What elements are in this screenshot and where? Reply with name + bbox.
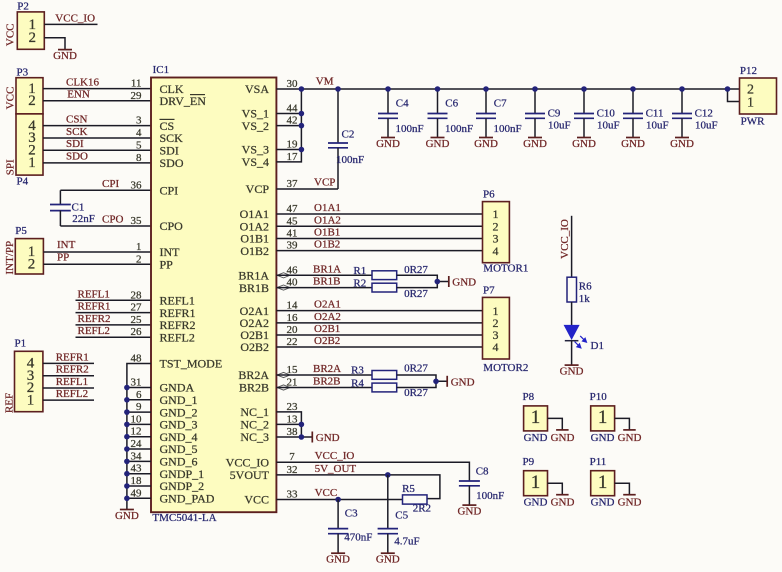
svg-text:P9: P9 <box>523 456 535 468</box>
svg-text:41: 41 <box>287 228 298 240</box>
svg-text:P11: P11 <box>590 456 607 468</box>
svg-text:VCC_IO: VCC_IO <box>55 13 95 25</box>
wire GNDP_1 to rail <box>127 473 151 475</box>
wire GND_4 to rail <box>127 436 151 438</box>
svg-text:1k: 1k <box>579 293 591 305</box>
svg-text:14: 14 <box>287 300 299 312</box>
svg-text:36: 36 <box>131 179 143 191</box>
svg-text:REF: REF <box>4 393 16 413</box>
connector P3 <box>4 66 43 113</box>
resistor R5 <box>402 483 431 515</box>
pin decoration diamond <box>277 273 290 278</box>
svg-text:1: 1 <box>598 407 608 428</box>
svg-text:VCC: VCC <box>5 23 17 46</box>
IC1 pin 6 GND_1 <box>136 389 198 407</box>
wire GND_2 to rail <box>127 411 151 413</box>
wire CPO <box>60 225 151 227</box>
svg-text:BR2B: BR2B <box>239 381 269 395</box>
junction P12 <box>725 86 731 92</box>
svg-text:7: 7 <box>289 451 295 463</box>
svg-text:27: 27 <box>131 302 143 314</box>
svg-text:C4: C4 <box>396 98 409 110</box>
svg-text:BR1B: BR1B <box>239 281 269 295</box>
svg-text:O2B1: O2B1 <box>314 323 340 335</box>
resistor R1 <box>353 264 428 280</box>
resistor R6 <box>567 277 592 305</box>
svg-text:D1: D1 <box>591 340 604 352</box>
svg-text:BR1A: BR1A <box>313 263 341 275</box>
svg-text:13: 13 <box>287 413 299 425</box>
IC1 pin 25 REFR2 <box>131 314 196 332</box>
svg-text:49: 49 <box>131 487 143 499</box>
svg-text:VM: VM <box>316 76 334 88</box>
connector P11 <box>590 456 615 509</box>
capacitor C11 10uF <box>623 89 669 137</box>
connector P4 <box>4 114 43 187</box>
svg-text:GND: GND <box>591 432 615 444</box>
svg-text:INT: INT <box>57 239 76 251</box>
IC1 pin 27 REFR1 <box>131 302 196 320</box>
wire REFL2 <box>76 336 152 338</box>
IC1 pin 24 GND_5 <box>131 438 198 456</box>
IC1 pin 21 BR2B <box>239 377 298 395</box>
IC1 pin 14 O2A1 <box>240 300 298 318</box>
svg-text:1: 1 <box>531 407 541 428</box>
svg-text:VCC: VCC <box>4 87 16 110</box>
svg-text:GND: GND <box>316 432 340 444</box>
wire P2.2 to GND <box>44 38 65 50</box>
svg-text:R3: R3 <box>351 365 364 377</box>
wire P8 to GND <box>548 418 563 429</box>
wire BR1B <box>276 287 372 289</box>
svg-text:20: 20 <box>287 324 299 336</box>
wire GND_PAD to rail <box>127 497 151 499</box>
junction NC_3 <box>299 434 305 440</box>
svg-text:0R27: 0R27 <box>404 264 428 276</box>
svg-text:C8: C8 <box>476 466 489 478</box>
svg-text:C12: C12 <box>695 108 713 120</box>
wire D1 to GND <box>571 341 573 365</box>
svg-text:1: 1 <box>28 155 36 171</box>
svg-text:23: 23 <box>287 401 299 413</box>
svg-text:GND: GND <box>621 138 645 150</box>
IC1 pin 29 DRV_EN <box>131 90 207 108</box>
junction 5V_OUT C5 <box>385 472 391 478</box>
junction <box>124 459 130 465</box>
IC1 pin 17 VS_4 <box>242 151 298 169</box>
svg-text:R4: R4 <box>351 377 364 389</box>
svg-text:BR2A: BR2A <box>313 363 341 375</box>
wire GND_5 to rail <box>127 448 151 450</box>
svg-text:0R27: 0R27 <box>404 288 428 300</box>
capacitor C5 <box>378 475 420 553</box>
wire NC_1 <box>276 412 301 437</box>
svg-text:SPI: SPI <box>4 159 16 175</box>
wire SCK <box>43 137 151 139</box>
connector P6 <box>483 189 529 275</box>
wire ENN <box>43 100 151 102</box>
wire VS bracket <box>276 89 301 162</box>
wire VCP <box>276 188 338 190</box>
connector P1 <box>4 338 43 413</box>
wire O2A1 <box>276 310 482 312</box>
wire GND_6 to rail <box>127 460 151 462</box>
junction VCC C3 <box>335 497 341 503</box>
wire REFR2 <box>76 324 152 326</box>
svg-text:GND: GND <box>474 138 498 150</box>
IC1 pin 34 GND_6 <box>131 450 198 468</box>
svg-text:0R27: 0R27 <box>404 362 428 374</box>
svg-text:44: 44 <box>287 103 299 115</box>
svg-text:REFR1: REFR1 <box>56 351 89 363</box>
svg-text:P3: P3 <box>17 66 29 78</box>
wire O2A2 <box>276 322 482 324</box>
svg-text:C7: C7 <box>494 98 507 110</box>
IC1 pin 38 NC_3 <box>240 426 298 444</box>
svg-text:43: 43 <box>131 463 143 475</box>
svg-text:REFR2: REFR2 <box>78 313 111 325</box>
svg-text:3: 3 <box>136 115 142 127</box>
svg-text:GND: GND <box>572 138 596 150</box>
svg-text:5VOUT: 5VOUT <box>230 468 270 482</box>
wire R1 to GND <box>397 275 449 281</box>
wire VCC <box>276 499 402 501</box>
connector P12 <box>740 65 777 128</box>
svg-text:GND: GND <box>451 376 475 388</box>
svg-text:R6: R6 <box>579 281 592 293</box>
IC1 pin 47 O1A1 <box>240 203 298 221</box>
svg-text:2: 2 <box>28 257 36 273</box>
ground P11 <box>618 495 642 509</box>
wire PP <box>43 263 151 265</box>
wire GNDP_2 to rail <box>127 485 151 487</box>
ground C4 <box>376 138 400 150</box>
IC1 pin 10 GND_3 <box>131 413 198 431</box>
svg-text:TMC5041-LA: TMC5041-LA <box>152 512 216 524</box>
IC1 pin 13 NC_2 <box>240 413 298 431</box>
wire GND_1 to rail <box>127 399 151 401</box>
svg-text:REFL2: REFL2 <box>78 325 110 337</box>
junction VM C6 <box>435 86 441 92</box>
IC1 pin 22 O2B2 <box>240 336 297 354</box>
capacitor C2 <box>328 89 364 189</box>
svg-text:2: 2 <box>28 93 36 109</box>
svg-text:42: 42 <box>287 115 298 127</box>
wire INT <box>43 251 151 253</box>
svg-text:C10: C10 <box>597 108 616 120</box>
capacitor C10 10uF <box>574 89 620 137</box>
svg-text:SCK: SCK <box>66 126 87 138</box>
svg-text:4: 4 <box>136 127 142 139</box>
IC1 pin 15 BR2A <box>238 364 298 382</box>
svg-text:GND: GND <box>551 497 575 509</box>
svg-text:VCC_IO: VCC_IO <box>559 219 571 259</box>
wire TST_MODE to GND rail <box>127 364 151 510</box>
IC1 pin 46 BR1A <box>238 264 298 282</box>
svg-text:VS_4: VS_4 <box>242 155 269 169</box>
wire GND_3 to rail <box>127 423 151 425</box>
svg-text:R1: R1 <box>353 265 366 277</box>
wire NC_3 <box>276 436 311 438</box>
svg-text:26: 26 <box>131 326 143 338</box>
IC1 pin 33 VCC <box>244 489 298 507</box>
wire REFL1 <box>76 299 152 301</box>
IC1 pin 8 SDO <box>136 152 184 170</box>
svg-text:GND: GND <box>670 138 694 150</box>
svg-text:100nF: 100nF <box>494 123 522 135</box>
svg-text:GND: GND <box>551 432 575 444</box>
capacitor C7 100nF <box>476 89 522 137</box>
svg-text:BR1B: BR1B <box>313 276 341 288</box>
ground C10 <box>572 138 596 150</box>
svg-text:17: 17 <box>287 151 299 163</box>
wire P11 to GND <box>615 483 630 494</box>
IC1 pin 2 PP <box>136 253 173 271</box>
IC1 pin 18 GNDP_2 <box>131 475 205 493</box>
wire O1B2 <box>276 250 482 252</box>
IC1 pin 40 BR1B <box>239 277 298 295</box>
svg-text:10uF: 10uF <box>695 119 718 131</box>
svg-text:22: 22 <box>287 336 298 348</box>
svg-text:CPO: CPO <box>160 219 184 233</box>
IC1 pin 44 VS_1 <box>242 103 298 121</box>
IC1 pin 30 VSA <box>245 78 298 96</box>
junction VM C4 <box>385 86 391 92</box>
capacitor C6 100nF <box>428 89 474 137</box>
svg-text:1: 1 <box>747 95 754 110</box>
IC1 pin 19 VS_3 <box>242 139 298 157</box>
svg-text:GND: GND <box>426 138 450 150</box>
svg-text:8: 8 <box>136 152 142 164</box>
IC1 pin 48 TST_MODE <box>131 353 223 371</box>
svg-text:GND: GND <box>560 365 584 377</box>
IC1 pin 37 VCP <box>246 178 298 196</box>
wire REFR1 <box>76 312 152 314</box>
svg-text:10uF: 10uF <box>646 119 669 131</box>
ground NC <box>312 432 339 445</box>
wire R4 to join <box>397 381 436 387</box>
svg-text:100nF: 100nF <box>336 154 364 166</box>
pin decoration diamond <box>277 385 290 390</box>
svg-text:GND: GND <box>376 554 400 566</box>
svg-text:IC1: IC1 <box>153 64 170 76</box>
svg-text:CPI: CPI <box>160 184 179 198</box>
svg-text:P7: P7 <box>483 284 495 296</box>
pin decoration diamond <box>277 372 290 377</box>
ground BR2 <box>447 376 474 389</box>
svg-text:REFL2: REFL2 <box>56 388 88 400</box>
svg-text:1: 1 <box>136 241 142 253</box>
svg-text:O2B2: O2B2 <box>314 335 340 347</box>
svg-text:1: 1 <box>27 392 35 408</box>
capacitor C9 10uF <box>525 89 571 137</box>
svg-text:4: 4 <box>493 244 499 258</box>
resistor R2 <box>353 278 428 301</box>
wire CSN <box>43 125 151 127</box>
wire VCC_IO vertical <box>571 216 573 277</box>
capacitor C3 <box>328 500 372 554</box>
svg-text:GND: GND <box>524 432 548 444</box>
svg-text:ENN: ENN <box>67 89 90 101</box>
svg-text:P8: P8 <box>523 391 535 403</box>
svg-text:16: 16 <box>287 312 299 324</box>
wire NC_2 <box>276 423 301 425</box>
junction <box>124 397 130 403</box>
wire VS stub <box>276 125 301 127</box>
connector P2 <box>5 1 45 50</box>
ground BR1 <box>449 276 476 289</box>
ground D1 <box>560 365 584 377</box>
svg-text:10: 10 <box>131 413 143 425</box>
svg-text:9: 9 <box>136 401 142 413</box>
svg-text:R5: R5 <box>402 483 415 495</box>
svg-text:VCC: VCC <box>315 487 338 499</box>
IC1 pin 28 REFL1 <box>131 289 195 307</box>
ground C11 <box>621 138 645 150</box>
IC1 pin 32 5VOUT <box>230 464 298 482</box>
resistor R3 <box>351 362 428 379</box>
svg-text:CPO: CPO <box>102 214 123 226</box>
svg-text:O2A2: O2A2 <box>314 311 341 323</box>
svg-text:C5: C5 <box>395 510 408 522</box>
IC1 pin 42 VS_2 <box>242 115 298 133</box>
svg-text:P6: P6 <box>483 189 495 201</box>
svg-text:12: 12 <box>131 426 142 438</box>
capacitor C8 <box>459 466 504 505</box>
svg-text:2: 2 <box>136 253 142 265</box>
junction BR2 GND <box>433 379 439 385</box>
svg-text:100nF: 100nF <box>476 490 504 502</box>
wire O1A2 <box>276 225 482 227</box>
ground P10 <box>618 430 642 444</box>
junction BR1 GND <box>435 279 441 285</box>
svg-text:18: 18 <box>131 475 143 487</box>
junction VS <box>299 123 305 129</box>
svg-text:GND: GND <box>618 497 642 509</box>
op-amp U1 IC1 TMC5041-LA body <box>151 64 276 524</box>
ground IC rail <box>115 510 139 522</box>
wire CLK16 <box>43 88 151 90</box>
junction VM C10 <box>581 86 587 92</box>
svg-text:1: 1 <box>598 472 608 493</box>
ground P2 <box>53 50 77 62</box>
junction VM C12 <box>679 86 685 92</box>
wire O2B2 <box>276 346 482 348</box>
svg-text:O2A1: O2A1 <box>314 299 341 311</box>
svg-text:INT/PP: INT/PP <box>4 241 16 275</box>
svg-text:10uF: 10uF <box>597 119 620 131</box>
svg-text:25: 25 <box>131 314 143 326</box>
IC1 pin 20 O2B1 <box>240 324 298 342</box>
ground C5 <box>376 553 400 565</box>
wire BR2A <box>276 374 372 376</box>
wire O1A1 <box>276 213 482 215</box>
IC1 pin 9 GND_2 <box>136 401 198 419</box>
svg-text:REFR1: REFR1 <box>78 301 111 313</box>
wire R2 to join <box>397 282 438 288</box>
svg-text:22nF: 22nF <box>72 213 95 225</box>
svg-text:1: 1 <box>531 472 541 493</box>
svg-text:4.7uF: 4.7uF <box>394 535 419 547</box>
svg-text:GND: GND <box>115 510 139 522</box>
IC1 pin 23 NC_1 <box>240 401 298 419</box>
svg-text:C3: C3 <box>345 507 358 519</box>
svg-text:38: 38 <box>287 426 299 438</box>
IC1 pin 41 O1B1 <box>240 228 297 246</box>
IC1 pin 26 REFL2 <box>131 326 195 344</box>
svg-text:P5: P5 <box>15 225 27 237</box>
svg-text:P4: P4 <box>17 175 29 187</box>
wire R6 to D1 <box>571 302 573 325</box>
svg-text:GND: GND <box>53 50 77 62</box>
svg-text:VCP: VCP <box>314 177 335 189</box>
svg-text:PWR: PWR <box>741 115 766 127</box>
svg-text:P12: P12 <box>740 65 757 77</box>
junction VM C2 <box>335 86 341 92</box>
IC1 pin 31 GNDA <box>131 377 195 395</box>
svg-text:O1B2: O1B2 <box>240 244 269 258</box>
svg-text:C2: C2 <box>342 129 355 141</box>
junction VM C11 <box>630 86 636 92</box>
svg-text:REFL1: REFL1 <box>56 376 88 388</box>
wire O1B1 <box>276 238 482 240</box>
svg-text:O1A1: O1A1 <box>314 202 341 214</box>
svg-text:MOTOR2: MOTOR2 <box>483 362 528 374</box>
svg-text:37: 37 <box>287 178 299 190</box>
svg-text:2R2: 2R2 <box>413 503 431 515</box>
capacitor C12 10uF <box>672 89 718 137</box>
junction <box>124 446 130 452</box>
svg-text:5V_OUT: 5V_OUT <box>315 463 357 475</box>
junction VM C7 <box>483 86 489 92</box>
svg-text:29: 29 <box>131 90 143 102</box>
svg-text:NC_3: NC_3 <box>240 430 269 444</box>
svg-text:35: 35 <box>131 215 143 227</box>
junction VS bracket top <box>299 86 305 92</box>
svg-text:GND: GND <box>326 554 350 566</box>
svg-text:19: 19 <box>287 139 299 151</box>
svg-text:TST_MODE: TST_MODE <box>160 357 223 371</box>
connector P9 <box>523 456 548 509</box>
svg-text:P1: P1 <box>15 338 27 350</box>
svg-text:SDO: SDO <box>66 151 88 163</box>
svg-text:11: 11 <box>131 78 142 90</box>
wire 5V_OUT <box>276 475 440 499</box>
svg-text:DRV_EN: DRV_EN <box>160 94 207 108</box>
wire P1 REFR1 <box>43 362 94 364</box>
junction VM C9 <box>532 86 538 92</box>
svg-text:VCC: VCC <box>244 493 269 507</box>
svg-text:REFR2: REFR2 <box>56 364 89 376</box>
capacitor C4 100nF <box>378 89 424 137</box>
wire BR1A <box>276 274 372 276</box>
wire P9 to GND <box>548 483 563 494</box>
IC1 pin 49 GND_PAD <box>131 487 215 505</box>
IC1 pin 35 CPO <box>131 215 184 233</box>
svg-text:VS_2: VS_2 <box>242 119 269 133</box>
svg-text:O1B1: O1B1 <box>314 227 340 239</box>
svg-text:32: 32 <box>287 464 298 476</box>
svg-text:CLK16: CLK16 <box>66 76 100 88</box>
svg-text:VCP: VCP <box>246 182 270 196</box>
ground C9 <box>523 138 547 150</box>
svg-text:6: 6 <box>136 389 142 401</box>
wire GNDA to rail <box>127 387 151 389</box>
capacitor C1 <box>50 190 95 226</box>
junction <box>124 483 130 489</box>
svg-text:VSA: VSA <box>245 82 269 96</box>
wire P10 to GND <box>615 418 630 429</box>
